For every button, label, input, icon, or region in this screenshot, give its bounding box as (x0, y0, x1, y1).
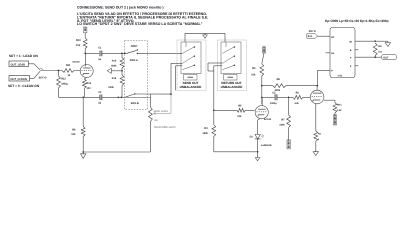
svg-text:SET=0: SET=0 (39, 76, 48, 79)
svg-text:DPDT: DPDT (131, 45, 138, 48)
svg-text:600k: 600k (109, 86, 115, 89)
svg-text:OUT: OUT (383, 56, 389, 59)
svg-text:OUT_LEAD: OUT_LEAD (11, 63, 26, 66)
svg-text:100: 100 (86, 87, 91, 90)
svg-text:B+1: B+1 (308, 35, 313, 38)
svg-text:Kp=2000 Lp=50 GL=20 Ep=1.5Kp E: Kp=2000 Lp=50 GL=20 Ep=1.5Kp Ex=300p (325, 19, 389, 23)
svg-text:R15: R15 (112, 59, 117, 62)
svg-text:1Meg: 1Meg (61, 82, 68, 85)
svg-text:HT: HT (331, 36, 335, 39)
svg-text:ECC82: ECC82 (264, 118, 272, 121)
svg-text:600k: 600k (111, 64, 117, 67)
svg-text:300 Vi: 300 Vi (309, 30, 316, 33)
svg-text:150k: 150k (202, 132, 208, 135)
svg-text:SW1-A: SW1-A (130, 59, 138, 62)
svg-text:SW1-B: SW1-B (131, 102, 139, 105)
svg-text:1M: 1M (154, 119, 157, 122)
svg-text:RG1: RG1 (337, 103, 342, 106)
svg-text:SEND LEVEL: SEND LEVEL (153, 110, 169, 113)
svg-text:3.3k: 3.3k (294, 102, 299, 105)
svg-text:10k: 10k (71, 133, 76, 136)
svg-text:10k: 10k (76, 44, 81, 47)
svg-text:ECC82: ECC82 (73, 60, 81, 63)
svg-text:220k: 220k (279, 123, 285, 126)
svg-text:R13: R13 (86, 82, 91, 85)
svg-text:Rtot=100k set=1: Rtot=100k set=1 (154, 125, 176, 129)
svg-text:OUT_CLEAN: OUT_CLEAN (10, 78, 26, 81)
svg-text:LO SWITCH "DPDT 2 SW1" DEVE ST: LO SWITCH "DPDT 2 SW1" DEVE STARE VERSO … (77, 22, 203, 26)
svg-text:R10: R10 (76, 39, 81, 42)
svg-text:R16: R16 (112, 77, 117, 80)
svg-text:1μ: 1μ (98, 102, 101, 105)
svg-text:1.5k: 1.5k (337, 109, 342, 112)
svg-text:LedBLUE: LedBLUE (261, 144, 272, 147)
svg-text:10k: 10k (237, 115, 242, 118)
svg-text:1μ: 1μ (98, 58, 101, 61)
svg-text:OT1: OT1 (338, 74, 343, 77)
svg-text:CONNESSIONE: SEND OUT 2 ( jac: CONNESSIONE: SEND OUT 2 ( jack MONO inse… (77, 5, 164, 9)
svg-text:UNBALANCED: UNBALANCED (221, 85, 244, 89)
svg-text:220k: 220k (275, 89, 281, 92)
svg-text:UNBALANCED: UNBALANCED (180, 85, 203, 89)
svg-text:SET = 0 : CLEAN ON: SET = 0 : CLEAN ON (8, 84, 40, 88)
svg-text:SET = 1 : LEAD ON: SET = 1 : LEAD ON (9, 54, 38, 58)
svg-text:1000p: 1000p (270, 102, 277, 105)
svg-text:R11: R11 (66, 64, 71, 67)
svg-text:UL: UL (331, 52, 335, 55)
svg-text:10k: 10k (251, 73, 256, 76)
svg-text:R12: R12 (61, 77, 66, 80)
